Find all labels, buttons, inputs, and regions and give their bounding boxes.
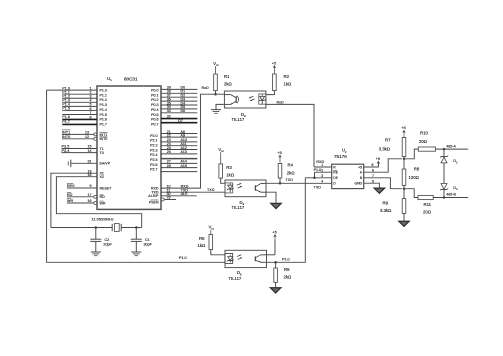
wire thick gray row <box>161 158 197 160</box>
svg-text:20Ω: 20Ω <box>419 139 428 144</box>
svg-text:R8: R8 <box>414 166 420 171</box>
U1 inner port2 labels <box>150 134 157 172</box>
wire P1.1 pin 2 <box>62 90 97 94</box>
svg-text:P1.7: P1.7 <box>62 120 70 124</box>
light arrows D3 <box>249 96 255 101</box>
svg-text:A13: A13 <box>181 150 187 154</box>
svg-text:ALE/P: ALE/P <box>148 194 159 198</box>
light arrows D5 <box>237 255 242 260</box>
wire INT1 pin 13 <box>62 130 94 135</box>
ground below D3 <box>211 110 221 114</box>
resistor R6 2k <box>274 262 292 287</box>
bubble pin 12 <box>94 137 97 140</box>
wire 485-A line <box>436 144 469 149</box>
svg-text:A12: A12 <box>181 146 187 150</box>
svg-text:20Ω: 20Ω <box>423 209 432 214</box>
svg-text:TXD: TXD <box>286 178 294 182</box>
svg-text:P1.6: P1.6 <box>62 115 70 119</box>
svg-text:13: 13 <box>85 131 89 135</box>
wire P0.0 pin 39 net D0 <box>161 86 197 90</box>
wire P1.7 bold <box>62 120 97 124</box>
svg-text:P1.0: P1.0 <box>100 89 107 93</box>
node RxD junction R1/D3 <box>214 93 217 96</box>
LED inside D4 <box>227 183 234 192</box>
resistor R10 20 ohm <box>418 130 435 151</box>
bubble pin 13 <box>94 133 97 136</box>
+5 symbol above R4 <box>277 151 281 163</box>
wire P0.7 pin 32 bold <box>161 115 197 119</box>
svg-text:P1.0: P1.0 <box>179 256 187 260</box>
svg-text:75176: 75176 <box>334 154 347 159</box>
node XTAL2 junction <box>135 226 138 229</box>
node 485-A junction <box>443 148 446 151</box>
resistor R8 120 ohm <box>402 159 420 189</box>
IC U1 80C31 microcontroller body <box>97 86 161 209</box>
svg-text:P2.0: P2.0 <box>150 134 157 138</box>
svg-text:2kΩ: 2kΩ <box>284 274 293 279</box>
light arrows D4 <box>237 183 242 188</box>
svg-text:3.3kΩ: 3.3kΩ <box>380 208 392 213</box>
wire P1.6 pin 7 <box>62 111 97 115</box>
resistor R1 2k <box>214 74 233 94</box>
resistor R4 2k <box>278 163 295 184</box>
wire stub row extra <box>161 171 197 173</box>
wire U2 pin5 GND <box>364 183 380 188</box>
wire P0.4 pin 35 net D4 <box>161 101 197 105</box>
svg-text:R4: R4 <box>288 163 294 168</box>
svg-text:25: 25 <box>167 146 171 150</box>
svg-text:P0.2: P0.2 <box>151 98 158 102</box>
wire P2.4 pin 25 net A12 <box>161 146 197 150</box>
svg-text:GND: GND <box>354 182 362 186</box>
wire D3 emitter to ground <box>216 104 224 109</box>
+5 symbol above R7 <box>401 126 405 135</box>
U2 inner pin names <box>333 165 362 185</box>
svg-text:80C31: 80C31 <box>124 76 138 81</box>
svg-text:26: 26 <box>167 150 171 154</box>
svg-text:P0.4: P0.4 <box>151 108 158 112</box>
svg-text:P0.7: P0.7 <box>151 123 158 127</box>
label PSEN inner <box>149 200 159 204</box>
svg-text:3.3kΩ: 3.3kΩ <box>379 147 391 152</box>
wire P1.6 pin 8 bold <box>62 115 97 119</box>
Vcc symbol above R5 <box>209 225 215 235</box>
phototransistor inside D5 <box>255 255 266 262</box>
svg-text:WR: WR <box>100 201 106 205</box>
wire P1.2 pin 3 <box>62 94 97 98</box>
svg-text:DE: DE <box>333 176 338 180</box>
svg-text:P0.5: P0.5 <box>151 113 158 117</box>
svg-text:+5: +5 <box>401 126 405 130</box>
ground below R6 <box>270 288 280 293</box>
wire P2.5 pin 26 net A13 <box>161 150 197 154</box>
label INT1 inner <box>100 132 108 136</box>
resistor R5 1k <box>198 235 226 255</box>
ground below R9 <box>399 221 409 226</box>
svg-text:P1.1: P1.1 <box>100 93 107 97</box>
ground below D4 <box>271 203 281 208</box>
svg-text:32: 32 <box>167 115 171 119</box>
IC U2 75176 RS-485 transceiver body <box>332 164 364 188</box>
node RE/DE junction <box>313 177 316 180</box>
phototransistor inside D3 <box>224 95 238 105</box>
svg-text:R2: R2 <box>284 74 290 79</box>
wire P3.5 pin 15 T1 <box>62 145 104 151</box>
label D5 TIL117 <box>229 270 243 281</box>
ground below C1 <box>131 252 141 256</box>
svg-text:TIL117: TIL117 <box>232 205 245 210</box>
svg-text:R6: R6 <box>284 267 290 272</box>
svg-text:INT0: INT0 <box>62 135 70 139</box>
wire U2 pin3 DE <box>305 177 331 179</box>
svg-text:T0: T0 <box>100 151 104 155</box>
svg-text:+5: +5 <box>272 231 276 235</box>
U1 inner port0 labels <box>151 89 158 127</box>
label D4 TIL117 <box>232 200 245 210</box>
wire U2 pin2 RE tie <box>314 168 332 178</box>
label D3 TIL117 <box>232 112 247 122</box>
svg-text:P0.6: P0.6 <box>151 118 158 122</box>
svg-text:22: 22 <box>167 133 171 137</box>
svg-text:7: 7 <box>90 111 92 115</box>
wire TXD out to U2 pin4 D <box>266 178 332 190</box>
wire P2.0 pin 21 net A8 <box>161 130 197 134</box>
svg-text:+5: +5 <box>277 151 281 155</box>
svg-text:P1.4: P1.4 <box>100 108 107 112</box>
opto-coupler D5 TIL117 body <box>225 250 267 267</box>
wire P2.2 pin 23 net A10 <box>161 138 197 142</box>
svg-text:16: 16 <box>88 199 92 203</box>
crystal Y1 11.0592MHz <box>51 217 142 232</box>
node 485-B junction <box>443 196 446 199</box>
svg-text:P1.0: P1.0 <box>282 258 290 262</box>
wire U2 pin6 A <box>364 159 402 172</box>
svg-text:ALE: ALE <box>181 192 189 196</box>
svg-text:A15: A15 <box>181 164 187 168</box>
svg-text:P0.0: P0.0 <box>151 89 158 93</box>
svg-text:P1.5: P1.5 <box>100 113 107 117</box>
U1 inner port1 labels <box>100 89 107 127</box>
wire WR pin 16 <box>67 199 94 203</box>
svg-text:RxD: RxD <box>277 100 285 104</box>
node A junction <box>403 158 406 161</box>
svg-text:P1.0: P1.0 <box>314 168 322 172</box>
svg-text:P0.3: P0.3 <box>151 103 158 107</box>
svg-text:C2: C2 <box>105 238 110 242</box>
wire P0.1 pin 38 net D1 <box>161 90 197 94</box>
svg-text:R3: R3 <box>226 165 232 170</box>
svg-text:RD: RD <box>67 193 73 197</box>
svg-text:EA/VP: EA/VP <box>100 162 111 166</box>
wire P0.2 pin 37 net D2 <box>161 94 197 98</box>
svg-text:D6: D6 <box>181 109 186 113</box>
svg-text:9: 9 <box>90 184 92 188</box>
resistor R11 20 ohm <box>418 195 433 214</box>
svg-text:R1: R1 <box>224 74 230 79</box>
wire P1.0 pin 1 <box>47 86 97 90</box>
label WR inner <box>100 201 106 205</box>
svg-text:1kΩ: 1kΩ <box>198 243 207 248</box>
svg-text:1kΩ: 1kΩ <box>284 82 293 87</box>
wire A to R10 <box>404 149 418 159</box>
wire P1.0 long route to opto D5 <box>47 90 225 262</box>
svg-text:R9: R9 <box>383 200 389 205</box>
wire U2 pin7 B <box>364 178 402 189</box>
resistor R3 1k <box>219 164 235 183</box>
svg-text:P1.5: P1.5 <box>62 107 70 111</box>
ground below U2 <box>374 188 384 193</box>
phototransistor inside D4 <box>255 183 266 192</box>
wire P3.4 pin 14 T0 <box>62 149 104 155</box>
svg-text:8: 8 <box>90 116 92 120</box>
power tie symbol at EA <box>68 160 71 168</box>
wire P1.5 pin 6 <box>62 107 97 111</box>
svg-text:P2.6: P2.6 <box>150 163 157 167</box>
label INT0 inner <box>100 137 108 141</box>
wire D4 emitter to ground <box>266 192 276 203</box>
capacitor C1 30pF <box>131 228 153 253</box>
svg-text:RES: RES <box>67 184 75 188</box>
svg-text:P3.4: P3.4 <box>62 149 70 153</box>
wire P2.3 pin 24 net A11 <box>161 142 197 146</box>
wire ALE pin 30 <box>148 192 196 198</box>
svg-text:R11: R11 <box>424 202 432 207</box>
svg-text:TIL117: TIL117 <box>229 276 242 281</box>
node TXD junction R4 <box>279 182 282 185</box>
wire B to R11 <box>404 189 418 198</box>
svg-text:1kΩ: 1kΩ <box>226 173 235 178</box>
svg-text:WR: WR <box>67 199 74 203</box>
wire X1 pin 19 to crystal <box>51 169 104 227</box>
wire RXD pin 10 up to opto D3 <box>151 86 224 190</box>
svg-text:P2.3: P2.3 <box>150 148 157 152</box>
svg-text:TXD: TXD <box>314 186 322 190</box>
svg-text:120Ω: 120Ω <box>409 175 420 180</box>
svg-text:29: 29 <box>167 196 171 200</box>
svg-text:R10: R10 <box>420 130 428 135</box>
U2 reference designator and value label <box>334 148 347 160</box>
opto-coupler D3 TIL117 body <box>224 91 266 108</box>
bubble pin 17 <box>94 195 97 198</box>
Vcc symbol above R1 <box>213 61 219 74</box>
svg-text:TXD: TXD <box>207 188 215 192</box>
wire P2.6 pin 27 net A14 <box>161 160 197 164</box>
svg-text:30pF: 30pF <box>144 243 153 247</box>
U2 pin numbers <box>321 163 374 183</box>
ground below C2 <box>91 252 101 256</box>
wire P2.1 pin 22 net A9 <box>161 133 197 137</box>
svg-text:PSEN: PSEN <box>149 200 159 204</box>
bubble pin 16 <box>94 202 97 205</box>
svg-text:RESET: RESET <box>100 186 113 190</box>
svg-text:20pF: 20pF <box>103 243 112 247</box>
svg-text:RD: RD <box>100 195 106 199</box>
wire P0.5 pin 34 net D5 <box>161 105 197 109</box>
svg-text:31: 31 <box>88 159 92 163</box>
svg-text:R7: R7 <box>385 138 391 143</box>
wire D5 emitter to RE/DE net <box>267 178 306 262</box>
node B junction <box>403 187 406 190</box>
svg-text:485-B: 485-B <box>446 192 456 196</box>
LED inside D3 <box>259 95 266 105</box>
wire 485-B line <box>433 192 468 197</box>
svg-text:18: 18 <box>88 173 92 177</box>
zener diode D1 <box>440 149 458 183</box>
opto-coupler D4 TIL117 body <box>225 180 266 197</box>
resistor R9 3.3k <box>380 189 406 221</box>
+5 symbol above R2 <box>272 62 276 74</box>
Vcc symbol above R3 <box>218 147 224 164</box>
svg-text:RxD: RxD <box>202 86 210 90</box>
svg-text:C1: C1 <box>145 238 150 242</box>
wire P1.4 pin 5 <box>62 103 97 107</box>
svg-text:R5: R5 <box>199 236 205 241</box>
svg-text:+5: +5 <box>376 157 380 161</box>
wire P2.7 pin 28 net A15 <box>161 164 197 168</box>
wire RD pin 17 <box>67 192 94 196</box>
wire EA/VP pin 31 <box>71 159 111 165</box>
wire PSEN pin 29 <box>164 196 176 200</box>
svg-text:P1.2: P1.2 <box>100 98 107 102</box>
resistor R2 1k <box>266 74 292 95</box>
bubble pin 29 <box>161 198 164 201</box>
+5 symbol above D5 collector <box>267 231 277 255</box>
svg-text:D7: D7 <box>178 119 183 123</box>
wire P1.3 pin 4 <box>62 99 97 103</box>
svg-text:485-A: 485-A <box>446 144 456 148</box>
svg-text:33: 33 <box>167 109 171 113</box>
svg-text:P2.7: P2.7 <box>150 168 157 172</box>
svg-text:RXD: RXD <box>316 160 324 164</box>
svg-text:P0.1: P0.1 <box>151 93 158 97</box>
zener diode D2 <box>440 184 458 198</box>
svg-text:17: 17 <box>88 193 92 197</box>
wire U2 pin8 VCC <box>364 162 379 167</box>
wire INT0 pin 12 <box>62 134 94 139</box>
svg-text:P1.7: P1.7 <box>100 123 107 127</box>
svg-text:P1.6: P1.6 <box>100 118 107 122</box>
LED inside D5 <box>227 255 234 262</box>
svg-text:INT0: INT0 <box>100 137 108 141</box>
wire X2 pin 18 to crystal <box>56 173 141 228</box>
svg-text:P2.5: P2.5 <box>150 158 157 162</box>
svg-text:11.0592MHz: 11.0592MHz <box>91 217 113 222</box>
svg-text:14: 14 <box>88 149 92 153</box>
svg-text:P1.3: P1.3 <box>100 103 107 107</box>
svg-text:P2.2: P2.2 <box>150 144 157 148</box>
capacitor C2 20pF <box>90 228 112 253</box>
svg-text:INT1: INT1 <box>100 133 108 137</box>
node junction D5/R6 <box>274 261 277 264</box>
node XTAL1 junction <box>95 226 98 229</box>
svg-text:INT1: INT1 <box>62 130 70 134</box>
svg-text:RE: RE <box>333 171 338 175</box>
wire RESET pin 9 <box>67 184 112 191</box>
wire D7 bold <box>161 119 197 123</box>
wire P0.3 pin 36 net D3 <box>161 97 197 101</box>
svg-text:28: 28 <box>167 164 171 168</box>
wire TXD pin 11 to opto D4 <box>151 188 225 194</box>
resistor R7 3.3k <box>379 136 406 159</box>
svg-text:4: 4 <box>321 180 323 184</box>
svg-text:X2: X2 <box>100 175 104 179</box>
wire D3 LED cathode to U2 pin1 RxD net <box>266 100 314 167</box>
wire U2 pin1 R <box>314 160 332 167</box>
U1 reference designator and value label <box>107 76 138 82</box>
svg-text:+5: +5 <box>358 165 362 169</box>
svg-text:2kΩ: 2kΩ <box>224 82 233 87</box>
+5 symbol above U2 <box>376 157 380 166</box>
svg-text:P2.1: P2.1 <box>150 139 157 143</box>
svg-text:12: 12 <box>85 135 89 139</box>
svg-text:A9: A9 <box>181 133 185 137</box>
svg-text:P2.4: P2.4 <box>150 153 157 157</box>
wire P0.6 pin 33 net D6 <box>161 109 197 113</box>
svg-text:TIL117: TIL117 <box>232 117 245 122</box>
label RD inner <box>100 195 106 199</box>
svg-text:2kΩ: 2kΩ <box>287 171 296 176</box>
svg-text:+5: +5 <box>272 62 276 66</box>
